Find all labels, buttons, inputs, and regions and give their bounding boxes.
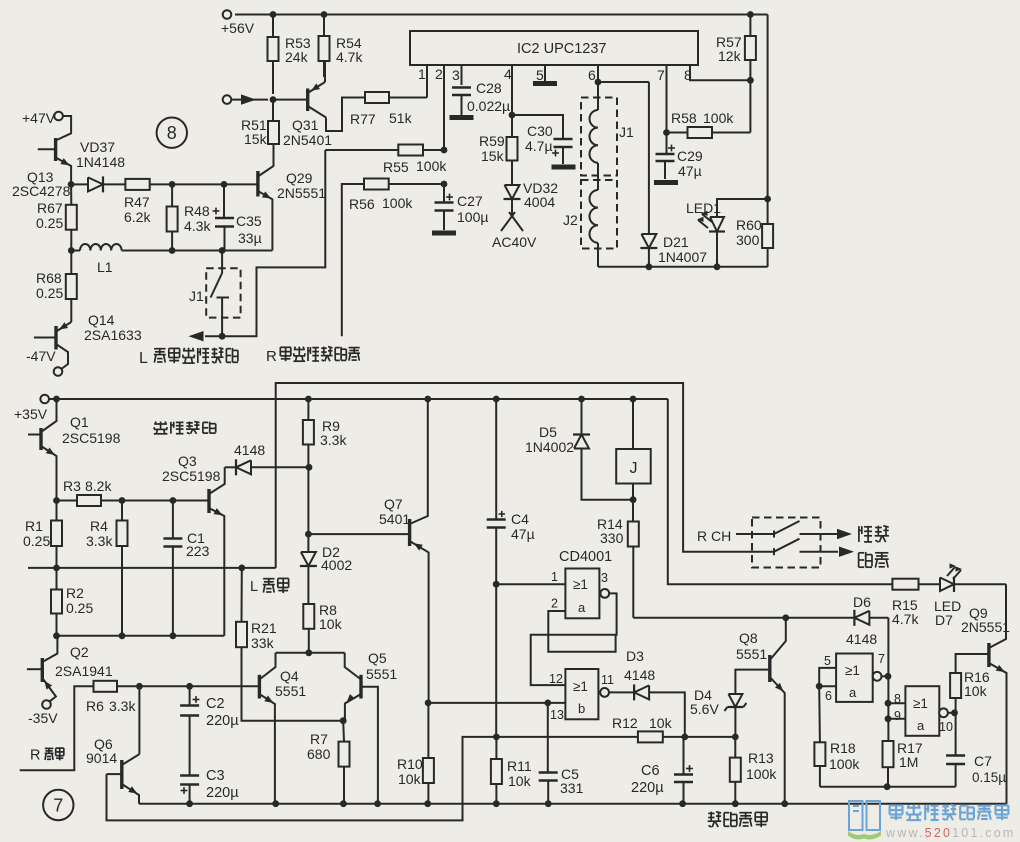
- svg-text:C7: C7: [974, 753, 992, 769]
- wire pin8 stub: [885, 700, 906, 707]
- wire +35V rail to R15 net: [668, 399, 893, 584]
- svg-text:12: 12: [549, 672, 563, 686]
- svg-text:5401: 5401: [379, 511, 410, 527]
- IC2 pin 7: [657, 65, 667, 133]
- wire R-sample input to R6: [20, 686, 94, 770]
- svg-text:R7: R7: [310, 731, 328, 747]
- svg-text:100k: 100k: [829, 756, 860, 772]
- capacitor C29 47u: [656, 133, 703, 180]
- wire gate-a out3 to gate-b pin12: [531, 593, 617, 685]
- transistor Q14 2SA1633: [34, 312, 142, 369]
- resistor R1 0.25: [23, 501, 62, 568]
- svg-text:47µ: 47µ: [511, 526, 535, 542]
- svg-text:b: b: [578, 701, 585, 716]
- svg-text:C6: C6: [641, 763, 660, 779]
- svg-text:15k: 15k: [244, 131, 268, 147]
- svg-text:1N4148: 1N4148: [76, 154, 125, 170]
- svg-text:R3: R3: [63, 478, 81, 494]
- transistor Q13 2SC4278: [12, 116, 71, 199]
- svg-text:4.7k: 4.7k: [336, 49, 363, 65]
- svg-text:www.520101.com: www.520101.com: [885, 826, 1015, 840]
- resistor R15 4.7k: [892, 579, 940, 627]
- watermark book icon: [848, 801, 881, 840]
- resistor R11 10k: [491, 584, 532, 804]
- relay coil J1 (dashed box): [581, 82, 634, 176]
- inductor L1: [68, 244, 273, 275]
- svg-text:C4: C4: [511, 511, 529, 527]
- svg-text:100k: 100k: [746, 766, 777, 782]
- ground below C30: [552, 165, 576, 170]
- svg-text:2SA1941: 2SA1941: [55, 663, 113, 679]
- svg-text:6: 6: [825, 689, 832, 703]
- svg-text:0.25: 0.25: [23, 533, 50, 549]
- wire gate-a2 inputs tie: [816, 668, 836, 690]
- svg-text:R77: R77: [350, 111, 376, 127]
- node pin4 junction: [509, 112, 516, 119]
- svg-text:D6: D6: [853, 594, 871, 610]
- transistor Q6 9014: [86, 686, 139, 803]
- node Q4/Q5 emitters junction: [340, 717, 347, 724]
- label CD4001: [559, 549, 612, 565]
- node R48 top junction: [169, 181, 176, 188]
- svg-text:R12: R12: [612, 715, 638, 731]
- svg-text:2SA1633: 2SA1633: [84, 327, 142, 343]
- svg-text:11: 11: [601, 673, 614, 687]
- resistor R60 300: [736, 199, 773, 267]
- svg-text:R60: R60: [736, 217, 762, 233]
- svg-text:4148: 4148: [846, 631, 877, 647]
- wire R14 to D6 net: [633, 617, 854, 619]
- svg-text:+47V: +47V: [22, 110, 56, 126]
- wire +35V rail: [49, 396, 668, 403]
- IC2 pin 5: [536, 65, 545, 83]
- resistor R57 12k: [716, 15, 756, 133]
- ground below C29: [654, 180, 678, 185]
- svg-text:J1: J1: [189, 288, 204, 304]
- node Q1/R3/R1 junction: [53, 497, 60, 504]
- node gate-a3 out10 junction: [948, 709, 958, 716]
- wire J1 output to R55: [222, 150, 325, 336]
- svg-text:+56V: +56V: [221, 20, 255, 36]
- wire pin6 to D21: [598, 81, 649, 83]
- diode D21 1N4007: [640, 82, 707, 267]
- svg-text:3.3k: 3.3k: [86, 533, 113, 549]
- svg-text:≥1: ≥1: [573, 679, 588, 694]
- diode D5 1N4002: [525, 399, 633, 500]
- svg-text:J2: J2: [563, 212, 578, 228]
- resistor R2 0.25: [51, 568, 93, 636]
- resistor R58 100k: [667, 110, 751, 138]
- svg-text:6: 6: [588, 67, 596, 83]
- svg-text:VD37: VD37: [80, 139, 115, 155]
- svg-text:4.7k: 4.7k: [892, 611, 919, 627]
- transistor Q3 2SC5198: [162, 453, 225, 636]
- wire main bottom rail: [139, 800, 1007, 807]
- wire bottom of relay/LED column: [598, 263, 768, 270]
- svg-text:D3: D3: [626, 648, 644, 664]
- svg-text:6.2k: 6.2k: [124, 209, 151, 225]
- svg-text:C28: C28: [476, 80, 502, 96]
- svg-text:24k: 24k: [285, 49, 309, 65]
- IC2 pin 3: [452, 65, 462, 85]
- arrow audio out lower: [821, 547, 889, 568]
- svg-text:C30: C30: [527, 123, 553, 139]
- IC U-IC2 UPC1237 box: [410, 31, 698, 65]
- node R6/Q6 junction: [136, 683, 143, 690]
- node gate-a pin1 junction: [493, 581, 566, 588]
- wire local ground rail R18-R17-C7: [820, 783, 956, 790]
- svg-text:LED1: LED1: [686, 200, 721, 216]
- node R4 top junction: [119, 497, 126, 504]
- capacitor C35 33u: [213, 184, 262, 250]
- svg-text:100k: 100k: [703, 110, 734, 126]
- svg-text:51k: 51k: [389, 110, 413, 126]
- resistor R12 10k: [496, 715, 684, 742]
- wire D6 column down: [887, 618, 889, 741]
- svg-text:R58: R58: [671, 110, 697, 126]
- label Q1 2SC5198: [62, 414, 121, 446]
- svg-text:Q7: Q7: [384, 496, 403, 512]
- ground below C28: [450, 115, 474, 120]
- label Q9 2N5551: [961, 605, 1010, 635]
- power terminal -47V: [26, 348, 62, 376]
- svg-text:R1: R1: [25, 518, 43, 534]
- svg-text:4004: 4004: [524, 194, 555, 210]
- svg-text:220µ: 220µ: [631, 780, 664, 796]
- svg-text:7: 7: [53, 796, 63, 816]
- resistor R68 0.25: [36, 251, 77, 323]
- power terminal +47V: [22, 110, 63, 126]
- svg-text:Q2: Q2: [70, 644, 89, 660]
- NOR gate b (pins 12,13,11): [549, 669, 614, 722]
- node R53/R51/Q31 base junction: [270, 96, 277, 103]
- node C1 top junction: [170, 497, 177, 504]
- svg-text:100µ: 100µ: [457, 209, 488, 225]
- svg-text:5551: 5551: [736, 646, 767, 662]
- svg-text:R68: R68: [36, 270, 62, 286]
- svg-text:0.022µ: 0.022µ: [467, 98, 510, 114]
- svg-text:3: 3: [452, 67, 460, 83]
- svg-text:5: 5: [536, 67, 544, 83]
- svg-text:Q4: Q4: [280, 668, 299, 684]
- NOR gate a3 (pins 8,9,10): [894, 686, 953, 736]
- diode D2 4002: [300, 534, 352, 604]
- svg-text:R47: R47: [124, 194, 150, 210]
- wire upper rail L-sample to switch: [276, 383, 752, 568]
- capacitor C3 220u: [180, 768, 239, 804]
- input terminal and arrow (top section): [223, 94, 268, 104]
- resistor R16 10k: [950, 654, 990, 713]
- LED D7: [934, 563, 1006, 628]
- node D4/R13 junction: [732, 734, 739, 741]
- svg-text:2SC5198: 2SC5198: [162, 468, 221, 484]
- svg-text:5551: 5551: [275, 683, 306, 699]
- svg-text:L1: L1: [97, 259, 113, 275]
- svg-text:C35: C35: [236, 213, 262, 229]
- node pin 7 junction: [663, 129, 670, 136]
- svg-text:13: 13: [550, 708, 564, 722]
- diode 4148 at Q3 collector: [225, 442, 309, 475]
- capacitor C1 223: [163, 501, 209, 636]
- resistor R4 3.3k: [86, 501, 128, 636]
- diode D6 4148: [846, 594, 888, 647]
- svg-text:220µ: 220µ: [206, 713, 239, 729]
- svg-text:33µ: 33µ: [238, 230, 262, 246]
- svg-text:47µ: 47µ: [678, 163, 702, 179]
- svg-text:a: a: [849, 685, 857, 700]
- IC2 pin 4: [504, 65, 512, 115]
- label overcurrent detect (hanzi): [154, 422, 216, 434]
- svg-text:331: 331: [560, 780, 584, 796]
- wire Q6 base to delay line: [107, 734, 500, 821]
- svg-text:1: 1: [418, 66, 426, 82]
- transistor Q31 2N5401: [273, 61, 365, 148]
- resistor R55 100k: [325, 145, 447, 176]
- arrow audio out upper: [821, 526, 889, 542]
- diode VD37 1N4148: [71, 139, 125, 192]
- watermark url: [885, 826, 1015, 840]
- svg-text:CD4001: CD4001: [559, 549, 612, 565]
- resistor R48 4.3k: [167, 184, 212, 250]
- svg-text:Q3: Q3: [178, 453, 197, 469]
- svg-text:0.25: 0.25: [36, 285, 63, 301]
- svg-text:R2: R2: [66, 585, 84, 601]
- transistor Q29 2N5551: [258, 144, 326, 251]
- svg-text:AC40V: AC40V: [492, 234, 537, 250]
- svg-text:10k: 10k: [398, 771, 422, 787]
- svg-text:2SC5198: 2SC5198: [62, 430, 121, 446]
- circled number 8: [157, 118, 187, 148]
- svg-text:33k: 33k: [251, 635, 275, 651]
- ground at IC2 pin 5: [533, 81, 557, 86]
- node Q13/VD37/R67 junction: [68, 181, 75, 188]
- relay contact J1 (dashed box): [189, 251, 241, 337]
- wire Q7-emitter node to gate-b pin13: [425, 700, 566, 707]
- svg-text:220µ: 220µ: [206, 785, 239, 801]
- circled number 7: [43, 790, 73, 820]
- svg-text:IC2 UPC1237: IC2 UPC1237: [517, 41, 606, 57]
- svg-text:Q29: Q29: [286, 170, 313, 186]
- wire +56V top rail: [235, 11, 768, 18]
- diode D3 4148: [609, 648, 685, 737]
- svg-text:4148: 4148: [234, 442, 265, 458]
- svg-text:0.15µ: 0.15µ: [972, 770, 1006, 785]
- resistor R8 10k: [303, 602, 342, 653]
- svg-text:≥1: ≥1: [845, 663, 860, 678]
- resistor R10 10k: [397, 703, 434, 804]
- resistor R59: [479, 115, 518, 164]
- resistor R21 33k: [236, 568, 343, 721]
- svg-text:2N5551: 2N5551: [961, 619, 1010, 635]
- node audio output junction: [219, 333, 226, 340]
- node gate-a2 out7 junction: [882, 673, 892, 680]
- svg-text:100k: 100k: [382, 195, 413, 211]
- svg-text:Q8: Q8: [739, 630, 758, 646]
- svg-text:Q5: Q5: [368, 650, 387, 666]
- NOR gate a (pins 1,2,3): [551, 569, 609, 619]
- capacitor C30 4.7u: [512, 115, 573, 164]
- svg-text:330: 330: [600, 530, 624, 546]
- node Q8 collector junction: [782, 614, 789, 621]
- node R56/pin2 junction: [441, 181, 448, 188]
- svg-text:4.7µ: 4.7µ: [525, 138, 553, 154]
- capacitor C27 100u: [435, 184, 489, 230]
- svg-text:Q14: Q14: [88, 312, 115, 328]
- wire R47 junction to Q29 base: [172, 181, 258, 188]
- resistor R18 100k: [814, 686, 860, 787]
- svg-text:1N4002: 1N4002: [525, 439, 574, 455]
- resistor R77 51k: [350, 92, 427, 127]
- svg-text:C3: C3: [206, 768, 225, 784]
- IC2 pin 8: [684, 65, 750, 83]
- svg-text:R18: R18: [830, 740, 856, 756]
- node R55/pin2 junction: [441, 147, 448, 154]
- resistor R13 100k: [730, 737, 778, 804]
- svg-text:J: J: [630, 460, 638, 477]
- svg-text:R56: R56: [349, 196, 375, 212]
- svg-text:7: 7: [657, 67, 665, 83]
- label R channel output midpoint (hanzi): [266, 347, 360, 365]
- IC2 pin 1: [418, 65, 427, 98]
- wire L-sample rail: [28, 565, 276, 572]
- svg-text:R55: R55: [383, 159, 409, 175]
- wire gate-a pin2 loop: [548, 611, 615, 652]
- capacitor C5 331: [539, 703, 584, 804]
- svg-text:+35V: +35V: [14, 406, 48, 422]
- svg-text:223: 223: [186, 543, 210, 559]
- svg-text:R: R: [266, 348, 277, 365]
- transistor Q7 5401: [308, 399, 428, 703]
- node R12/C6/D3 junction: [681, 734, 735, 741]
- svg-text:10k: 10k: [319, 616, 343, 632]
- resistor R9 3.3k: [303, 399, 348, 467]
- svg-text:9: 9: [894, 709, 901, 723]
- svg-text:8.2k: 8.2k: [85, 478, 112, 494]
- svg-text:3.3k: 3.3k: [109, 698, 136, 714]
- label R sample (hanzi): [30, 748, 64, 764]
- svg-text:9014: 9014: [86, 750, 117, 766]
- svg-text:5.6V: 5.6V: [690, 701, 719, 717]
- transistor Q9 2N5551: [989, 584, 1007, 804]
- svg-text:4002: 4002: [321, 557, 352, 573]
- power terminal -35V: [28, 700, 58, 726]
- switch R-CH (dashed box): [697, 518, 821, 568]
- IC2 pin 2: [435, 65, 444, 150]
- node Q7 base junction: [305, 531, 312, 538]
- svg-text:4: 4: [504, 66, 512, 82]
- svg-text:Q1: Q1: [70, 414, 89, 430]
- svg-text:-35V: -35V: [28, 710, 58, 726]
- transistor Q1 2SC5198: [28, 399, 57, 501]
- svg-text:7: 7: [878, 652, 885, 666]
- svg-text:D21: D21: [663, 234, 689, 250]
- svg-text:C27: C27: [457, 193, 483, 209]
- svg-text:2: 2: [435, 66, 443, 82]
- svg-text:-47V: -47V: [26, 348, 56, 364]
- resistor R6 3.3k: [86, 681, 139, 714]
- svg-text:a: a: [578, 600, 586, 615]
- svg-text:C2: C2: [206, 696, 225, 712]
- svg-text:10k: 10k: [649, 715, 673, 731]
- label L channel audio output (hanzi): [139, 348, 238, 367]
- svg-text:1N4007: 1N4007: [658, 249, 707, 265]
- arrow L-channel audio output: [189, 331, 223, 341]
- node pin 6 junction: [595, 79, 602, 86]
- resistor R47 6.2k: [124, 179, 172, 225]
- NOR gate a2 (pins 5,6,7): [824, 652, 885, 703]
- capacitor C4 47u: [487, 399, 535, 584]
- svg-text:J1: J1: [619, 124, 634, 140]
- svg-text:10: 10: [939, 720, 953, 734]
- AC40V input fork: [492, 212, 537, 250]
- relay J box: [616, 399, 651, 500]
- watermark site name (hanzi): [890, 805, 1009, 820]
- wire Q4/Q5 collectors: [276, 649, 345, 656]
- transistor Q4 5551: [259, 653, 306, 804]
- svg-text:5551: 5551: [366, 666, 397, 682]
- svg-text:R11: R11: [507, 758, 532, 774]
- power terminal +35V: [14, 395, 49, 422]
- svg-text:R59: R59: [479, 133, 505, 149]
- relay coil J2 (dashed box): [563, 163, 617, 267]
- wire right column from +56V rail: [764, 15, 771, 203]
- svg-text:R10: R10: [397, 756, 423, 772]
- svg-text:C29: C29: [677, 148, 703, 164]
- svg-text:R: R: [30, 748, 40, 764]
- wire pin9 stub: [885, 715, 906, 722]
- resistor R7 680: [307, 721, 350, 804]
- svg-text:a: a: [917, 718, 925, 733]
- node J/R14/D5 junction: [630, 496, 637, 503]
- capacitor C28: [452, 80, 510, 115]
- svg-text:680: 680: [307, 746, 331, 762]
- svg-text:2: 2: [551, 597, 558, 611]
- capacitor C6 220u: [631, 737, 693, 804]
- svg-text:12k: 12k: [718, 48, 742, 64]
- resistor R56 100k: [342, 179, 444, 337]
- transistor Q8 5551: [736, 618, 786, 804]
- svg-text:15k: 15k: [481, 148, 505, 164]
- svg-text:8: 8: [167, 123, 177, 143]
- resistor R53: [268, 15, 311, 95]
- svg-text:R13: R13: [748, 750, 774, 766]
- ground below C27: [432, 231, 456, 236]
- LED LED1: [686, 199, 768, 267]
- svg-text:3: 3: [601, 571, 608, 585]
- svg-text:R6: R6: [86, 698, 104, 714]
- diode VD32 4004: [504, 161, 559, 217]
- power terminal +56V: [221, 10, 255, 36]
- transistor Q2 2SA1941: [27, 632, 113, 701]
- resistor R3 8.2k: [57, 478, 123, 506]
- svg-text:5: 5: [824, 654, 831, 668]
- node R9/4148/D2 junction: [306, 464, 313, 534]
- wire R3 node to Q3 base: [122, 500, 209, 502]
- svg-text:0.25: 0.25: [66, 600, 93, 616]
- svg-text:3.3k: 3.3k: [320, 432, 347, 448]
- svg-text:D5: D5: [539, 424, 557, 440]
- svg-text:L: L: [139, 350, 148, 367]
- resistor R14 330: [597, 500, 639, 618]
- svg-text:R48: R48: [184, 203, 210, 219]
- svg-text:≥1: ≥1: [913, 696, 928, 711]
- resistor R17 1M: [883, 740, 923, 787]
- transistor Q5 5551: [345, 650, 398, 804]
- svg-text:4148: 4148: [624, 667, 655, 683]
- svg-text:R67: R67: [37, 200, 63, 216]
- svg-text:10k: 10k: [508, 773, 532, 789]
- resistor R54: [319, 15, 364, 78]
